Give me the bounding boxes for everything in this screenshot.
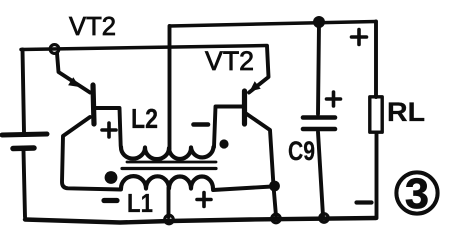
svg-text:RL: RL: [387, 97, 425, 127]
svg-text:L2: L2: [131, 103, 158, 134]
svg-text:3: 3: [405, 170, 429, 218]
svg-text:C9: C9: [288, 136, 315, 166]
svg-text:L1: L1: [127, 188, 153, 218]
svg-text:VT2: VT2: [205, 46, 254, 76]
svg-text:VT2: VT2: [69, 11, 116, 41]
